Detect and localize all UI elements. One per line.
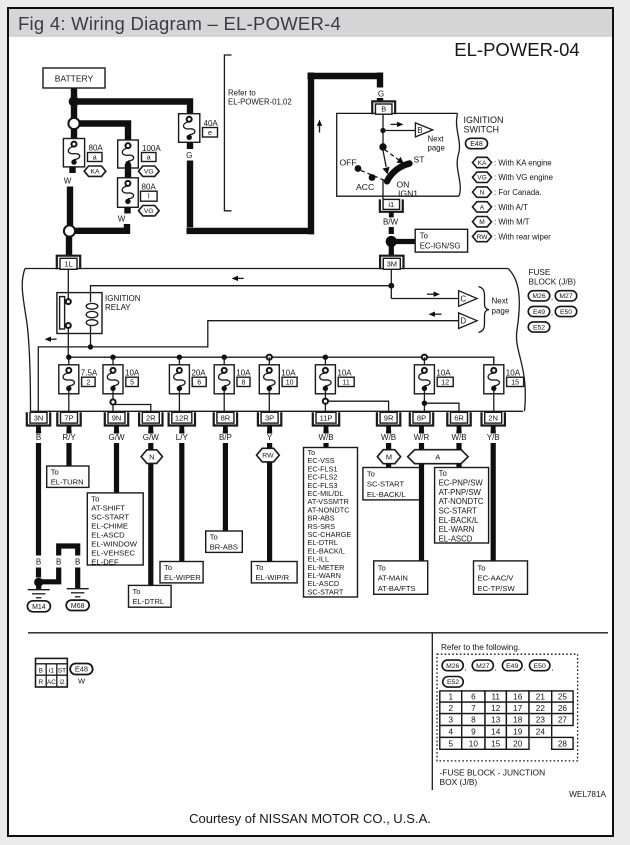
wire branch to M68 [41, 546, 78, 588]
svg-text:,: , [551, 295, 553, 302]
svg-text:EL-POWER-01,02: EL-POWER-01,02 [228, 98, 292, 107]
connector 11P [313, 412, 339, 425]
svg-text:,: , [524, 665, 526, 672]
svg-text:17: 17 [513, 704, 523, 713]
svg-text:To: To [478, 563, 486, 572]
svg-text:To: To [439, 469, 448, 478]
svg-text:: With M/T: : With M/T [494, 218, 530, 227]
connector 3M [389, 251, 394, 256]
arrow to ON [383, 151, 386, 168]
svg-text:1: 1 [448, 693, 453, 702]
svg-text:12: 12 [491, 704, 501, 713]
svg-text:G/W: G/W [109, 433, 125, 442]
svg-text:W: W [78, 677, 86, 686]
svg-text:EL-DTRL: EL-DTRL [133, 597, 165, 606]
connector B [372, 101, 395, 114]
svg-text:1L: 1L [64, 260, 72, 269]
svg-text:E52: E52 [447, 679, 459, 686]
svg-text:40A: 40A [204, 119, 219, 128]
svg-text:i2: i2 [60, 679, 65, 686]
svg-text:EL-WIPER: EL-WIPER [164, 573, 201, 582]
svg-text:AT-NONDTC: AT-NONDTC [439, 497, 484, 506]
svg-text:A: A [435, 452, 440, 461]
svg-text:BATTERY: BATTERY [55, 74, 94, 84]
svg-text:26: 26 [558, 704, 568, 713]
svg-text:,: , [495, 665, 497, 672]
svg-text:C: C [460, 294, 466, 303]
svg-text:SC-START: SC-START [91, 512, 129, 521]
svg-text:VG: VG [477, 175, 487, 182]
svg-text:EL-TURN: EL-TURN [51, 477, 84, 486]
connector ref E52 [443, 677, 464, 688]
svg-text:B/W: B/W [383, 218, 399, 227]
connector 2R [139, 412, 162, 425]
svg-text:4: 4 [448, 727, 453, 736]
svg-text:6R: 6R [454, 414, 464, 423]
svg-text:B: B [36, 558, 41, 567]
hexagon M [377, 450, 400, 464]
svg-text:15: 15 [491, 739, 501, 748]
svg-text:B: B [39, 668, 43, 675]
svg-text:10A: 10A [125, 368, 140, 377]
rotary contact arc [387, 164, 410, 182]
connector 2N [482, 412, 505, 425]
connector 6R [447, 412, 470, 425]
To AT-MAIN box [374, 561, 428, 594]
connector 12R [169, 412, 195, 425]
svg-text:KA: KA [90, 169, 100, 176]
svg-text:7.5A: 7.5A [81, 368, 98, 377]
triangle D next page [459, 313, 478, 329]
svg-text:10: 10 [469, 739, 479, 748]
svg-text:2: 2 [86, 379, 90, 386]
fuse 11 (10A) [323, 355, 328, 360]
hexagon RW [257, 448, 280, 462]
svg-text:WEL781A: WEL781A [569, 790, 606, 799]
legend hexagon RW [473, 231, 492, 241]
svg-text:,: , [465, 665, 467, 672]
flow arrow right to C [427, 293, 436, 295]
svg-text:EL-POWER-04: EL-POWER-04 [454, 39, 579, 60]
svg-text:M26: M26 [446, 663, 459, 670]
To EL-WIP/R box [251, 562, 297, 583]
svg-text:KA: KA [478, 160, 487, 167]
triangle B next page [415, 123, 432, 137]
svg-text:E49: E49 [533, 309, 545, 316]
svg-text:: With VG engine: : With VG engine [494, 173, 553, 182]
connector ref E48 bottom [70, 664, 93, 675]
svg-text:W: W [64, 177, 72, 186]
svg-text:ST: ST [414, 155, 426, 165]
svg-text:5: 5 [130, 379, 134, 386]
relay coil [90, 293, 92, 302]
wire relay coil bottom net [88, 344, 93, 349]
svg-text:G: G [378, 90, 384, 99]
connector refs M26 M27 [528, 291, 550, 301]
svg-text:14: 14 [491, 727, 501, 736]
svg-text:BOX (J/B): BOX (J/B) [440, 777, 478, 787]
svg-text:G: G [186, 151, 192, 160]
fusible link 80A (a) KA [63, 139, 84, 167]
svg-text:9R: 9R [384, 414, 394, 423]
svg-text:23: 23 [536, 716, 546, 725]
svg-text:M27: M27 [476, 663, 489, 670]
svg-text:-FUSE BLOCK - JUNCTION: -FUSE BLOCK - JUNCTION [440, 768, 546, 778]
svg-text:L/Y: L/Y [176, 433, 189, 442]
To BR-ABS box [206, 531, 243, 552]
wire 2N Y/B down [491, 431, 496, 562]
svg-text:E48: E48 [75, 665, 88, 674]
svg-text:To: To [378, 563, 386, 572]
svg-text:M: M [479, 219, 485, 226]
svg-text:IGNITION: IGNITION [105, 294, 141, 303]
svg-text:2R: 2R [146, 414, 156, 423]
svg-text:EL-BACK/L: EL-BACK/L [367, 490, 406, 499]
connector ref E52 [528, 322, 550, 332]
svg-text:BR-ABS: BR-ABS [210, 542, 238, 551]
svg-text:EL-BACK/L: EL-BACK/L [439, 516, 480, 525]
wire 2R G/W down [148, 431, 153, 586]
svg-text:E48: E48 [470, 141, 483, 148]
svg-text:20A: 20A [191, 368, 206, 377]
fuse number table [440, 691, 462, 702]
svg-text:B: B [36, 433, 41, 442]
wire battery down [71, 88, 77, 97]
svg-text:7P: 7P [64, 414, 73, 423]
ignition switch internals [382, 114, 384, 148]
svg-text:R/Y: R/Y [62, 433, 76, 442]
svg-text:3M: 3M [387, 260, 397, 269]
wire circle2 down to 1L [66, 237, 72, 257]
wire pivot down [382, 180, 384, 199]
ignition switch box [337, 113, 461, 196]
title bar [9, 9, 612, 37]
wire 9N G/W down [114, 431, 119, 494]
hexagon A wide [408, 450, 468, 464]
svg-text:To: To [367, 470, 375, 479]
svg-text:RW: RW [477, 234, 489, 241]
svg-text:B: B [417, 126, 422, 135]
svg-text:SC-START: SC-START [439, 507, 478, 516]
svg-text:22: 22 [536, 704, 546, 713]
node battery junction [69, 96, 80, 107]
svg-text:EC-PNP/SW: EC-PNP/SW [439, 478, 484, 487]
svg-text:M26: M26 [532, 293, 545, 300]
fuse 8 (10A) [222, 355, 227, 360]
ignition relay [57, 293, 102, 334]
svg-text:2: 2 [448, 704, 453, 713]
node harness connector circle 2 [64, 225, 75, 236]
svg-text:EL-WARN: EL-WARN [439, 525, 475, 534]
battery [43, 68, 105, 88]
hexagon VG 1 [139, 166, 160, 176]
svg-text:EC-TP/SW: EC-TP/SW [478, 584, 516, 593]
node harness connector circle [68, 118, 79, 129]
svg-text:VG: VG [144, 169, 154, 176]
svg-text:15: 15 [511, 379, 519, 386]
svg-text:BLOCK (J/B): BLOCK (J/B) [529, 278, 577, 287]
legend hexagon N [473, 187, 492, 197]
svg-text:a: a [147, 155, 151, 162]
connector 1L [57, 256, 80, 270]
svg-text:N: N [149, 452, 154, 461]
svg-text:12: 12 [441, 379, 449, 386]
svg-text:24: 24 [536, 727, 546, 736]
legend hexagon M [473, 217, 492, 227]
wire junction to connector circle [71, 106, 77, 118]
fusible link 100A (a) VG [118, 140, 139, 168]
svg-text:W/B: W/B [381, 433, 396, 442]
svg-text:N: N [480, 189, 485, 196]
wire link down and left to circle 2 [76, 207, 128, 231]
svg-text:B: B [381, 104, 386, 113]
svg-text:SWITCH: SWITCH [464, 125, 500, 135]
flow arrow up [319, 124, 321, 133]
wire fusible link down to circle [69, 167, 75, 174]
wire G feed to ignition switch [187, 73, 381, 235]
svg-text:AT-PNP/SW: AT-PNP/SW [439, 488, 482, 497]
svg-text:page: page [428, 144, 445, 153]
svg-text:ACC: ACC [356, 182, 374, 192]
To SC-START box [363, 468, 422, 500]
svg-text:EL-WINDOW: EL-WINDOW [91, 539, 137, 548]
node fuse12 split dot [424, 403, 459, 412]
flow arrow left to D [433, 313, 442, 315]
wire 7P R/Y down [66, 431, 71, 467]
separator line [28, 632, 608, 634]
fuse supply bus [68, 357, 494, 366]
node ign dot2 [379, 143, 386, 150]
dashed detent line [361, 171, 385, 181]
svg-text:7: 7 [471, 704, 476, 713]
svg-text:10A: 10A [236, 368, 251, 377]
svg-text:Courtesy of NISSAN MOTOR CO.,: Courtesy of NISSAN MOTOR CO., U.S.A. [189, 811, 431, 826]
svg-text:M14: M14 [32, 604, 46, 611]
fuse 15 (10A) [493, 357, 495, 366]
svg-text:RW: RW [262, 453, 274, 460]
svg-text:To: To [51, 468, 59, 477]
connector 7P [57, 412, 80, 425]
svg-text:21: 21 [536, 693, 546, 702]
svg-text:M27: M27 [559, 293, 572, 300]
svg-text:: With KA engine: : With KA engine [494, 158, 552, 167]
svg-text:: For Canada.: : For Canada. [494, 188, 542, 197]
wire junction to 100A link [79, 124, 128, 142]
svg-text:Next: Next [428, 135, 445, 144]
node fuse5 split circle [113, 405, 151, 413]
wire 3N B down [36, 431, 41, 578]
svg-text:9N: 9N [112, 414, 122, 423]
node fuse11 split circle [325, 401, 388, 412]
svg-text:To: To [164, 563, 172, 572]
flow arrow right inside switch [391, 123, 400, 125]
svg-text:27: 27 [558, 716, 568, 725]
connector 8R [214, 412, 237, 425]
svg-text:To: To [91, 494, 99, 503]
svg-text:Y/B: Y/B [487, 433, 500, 442]
connector 3N [27, 412, 50, 425]
svg-text:80A: 80A [142, 183, 157, 192]
svg-text:12R: 12R [175, 414, 189, 423]
svg-text:10A: 10A [281, 368, 296, 377]
svg-text:B: B [75, 558, 80, 567]
svg-text:8P: 8P [417, 414, 426, 423]
svg-text:To: To [420, 232, 429, 241]
svg-text:EL-DEF: EL-DEF [91, 557, 119, 566]
ground M68 [67, 588, 89, 590]
svg-text:A: A [480, 204, 485, 211]
connector 9N [105, 412, 128, 425]
svg-text:IGN1: IGN1 [398, 189, 418, 199]
svg-text:11: 11 [343, 379, 350, 386]
svg-text:E49: E49 [506, 663, 518, 670]
svg-text:,: , [552, 665, 554, 672]
svg-text:20: 20 [513, 739, 523, 748]
connector ref E48 [466, 138, 488, 148]
svg-text:: With A/T: : With A/T [494, 203, 528, 212]
svg-text:FUSE: FUSE [529, 268, 551, 277]
wire relay coil top to 3M [91, 286, 392, 293]
svg-text:Next: Next [492, 297, 509, 306]
svg-text:VG: VG [144, 208, 154, 215]
svg-text:R: R [38, 679, 43, 686]
svg-text:18: 18 [513, 716, 523, 725]
To EC-VSS list box [304, 448, 358, 598]
node OFF dot [355, 165, 362, 172]
svg-text:M68: M68 [71, 603, 85, 610]
triangle C next page [459, 291, 478, 307]
connector 3P [258, 412, 281, 425]
svg-text:100A: 100A [142, 144, 161, 153]
svg-text:W/B: W/B [318, 433, 333, 442]
svg-text:11: 11 [491, 693, 500, 702]
To EL-WIPER box [160, 562, 203, 583]
svg-text:a: a [93, 155, 97, 162]
svg-text:E50: E50 [560, 309, 572, 316]
svg-text:EL-ASCD: EL-ASCD [91, 530, 125, 539]
svg-text:W/R: W/R [414, 433, 430, 442]
svg-text:: With rear wiper: : With rear wiper [494, 232, 551, 241]
svg-text:11P: 11P [320, 414, 333, 423]
divider line [431, 633, 433, 790]
svg-text:EL-ASCD: EL-ASCD [439, 535, 473, 544]
svg-text:RELAY: RELAY [105, 303, 131, 312]
wire between links [125, 164, 131, 181]
refer-to bracket [224, 55, 231, 211]
fusible link 80A (l) VG [118, 178, 139, 208]
svg-text:2N: 2N [488, 414, 498, 423]
brace next page [479, 287, 490, 333]
svg-text:SC-START: SC-START [367, 480, 405, 489]
To EC-IGN/SG box [415, 229, 467, 252]
wire 9R W/B down [386, 431, 391, 468]
hexagon VG 2 [139, 206, 160, 216]
svg-text:E52: E52 [533, 324, 545, 331]
wire 6R W/B down [456, 431, 461, 468]
connector 9R [377, 412, 400, 425]
dashed arrow to ST [385, 150, 400, 161]
fuse 6 (20A) [177, 355, 182, 360]
fuse 5 (10A) [110, 355, 115, 360]
fuse block J/B outline [25, 268, 508, 270]
node ACC dot [369, 174, 376, 181]
svg-text:6: 6 [197, 379, 201, 386]
wire 8P W/R down [419, 431, 424, 562]
node B/W junction [386, 236, 397, 247]
svg-text:To: To [255, 563, 263, 572]
To EC-AAC/V box [474, 561, 528, 594]
connector refs E49 E50 [528, 306, 550, 316]
legend hexagon KA [473, 157, 492, 167]
flow arrow left on coil line [236, 277, 244, 279]
node 3M junction [388, 283, 394, 289]
svg-text:10A: 10A [337, 368, 352, 377]
svg-text:i1: i1 [388, 200, 394, 209]
To AT-SHIFT list box [87, 493, 143, 565]
svg-text:Refer to the following.: Refer to the following. [441, 643, 520, 652]
svg-text:8: 8 [471, 716, 476, 725]
connector 8P [410, 412, 433, 425]
fuse 2 (7.5A) [66, 355, 71, 360]
node ground junction dot [34, 578, 43, 587]
svg-text:EL-WIP/R: EL-WIP/R [255, 573, 289, 582]
svg-text:9: 9 [471, 727, 476, 736]
To EL-TURN box [47, 466, 89, 487]
connector refs M26 M27 E49 E50 [442, 660, 463, 671]
wire to 3M [389, 246, 394, 257]
hexagon N [141, 450, 162, 464]
wire 3P Y down [267, 431, 272, 562]
svg-text:G/W: G/W [143, 433, 159, 442]
svg-text:3P: 3P [265, 414, 274, 423]
svg-text:25: 25 [558, 693, 568, 702]
svg-text:OFF: OFF [340, 158, 357, 168]
fuse 10 (10A) [267, 355, 272, 360]
hexagon KA [84, 166, 106, 176]
legend hexagon VG [473, 172, 492, 182]
wire 11P W/B down [323, 431, 328, 448]
svg-text:5: 5 [448, 739, 453, 748]
connector i1 [380, 199, 403, 211]
svg-text:10: 10 [286, 379, 294, 386]
fusible link 40A (e) [179, 114, 200, 143]
svg-text:AT-MAIN: AT-MAIN [378, 574, 408, 583]
svg-text:i1: i1 [49, 668, 54, 675]
wire dot1 to triangle B [383, 130, 415, 132]
ground M14 [36, 585, 41, 589]
svg-text:80A: 80A [89, 144, 104, 153]
svg-text:AC: AC [47, 679, 56, 686]
legend hexagon A [473, 202, 492, 212]
svg-text:19: 19 [513, 727, 523, 736]
fuse 12 (10A) [422, 355, 427, 360]
wire to fusible link 80A [71, 129, 77, 141]
wire 8R B/P down [223, 431, 228, 532]
svg-text:13: 13 [491, 716, 501, 725]
svg-text:E50: E50 [534, 663, 546, 670]
svg-text:M: M [386, 452, 392, 461]
svg-text:To: To [210, 533, 218, 542]
svg-text:e: e [208, 130, 212, 137]
connector E48 pin grid [36, 658, 68, 687]
svg-text:D: D [460, 317, 466, 326]
wire to EC-IGN/SG [395, 239, 415, 244]
svg-text:To: To [133, 587, 141, 596]
flow arrow left near 3N [49, 338, 57, 340]
svg-text:EL-CHIME: EL-CHIME [91, 521, 128, 530]
svg-text:3: 3 [448, 716, 453, 725]
svg-text:,: , [551, 310, 553, 317]
